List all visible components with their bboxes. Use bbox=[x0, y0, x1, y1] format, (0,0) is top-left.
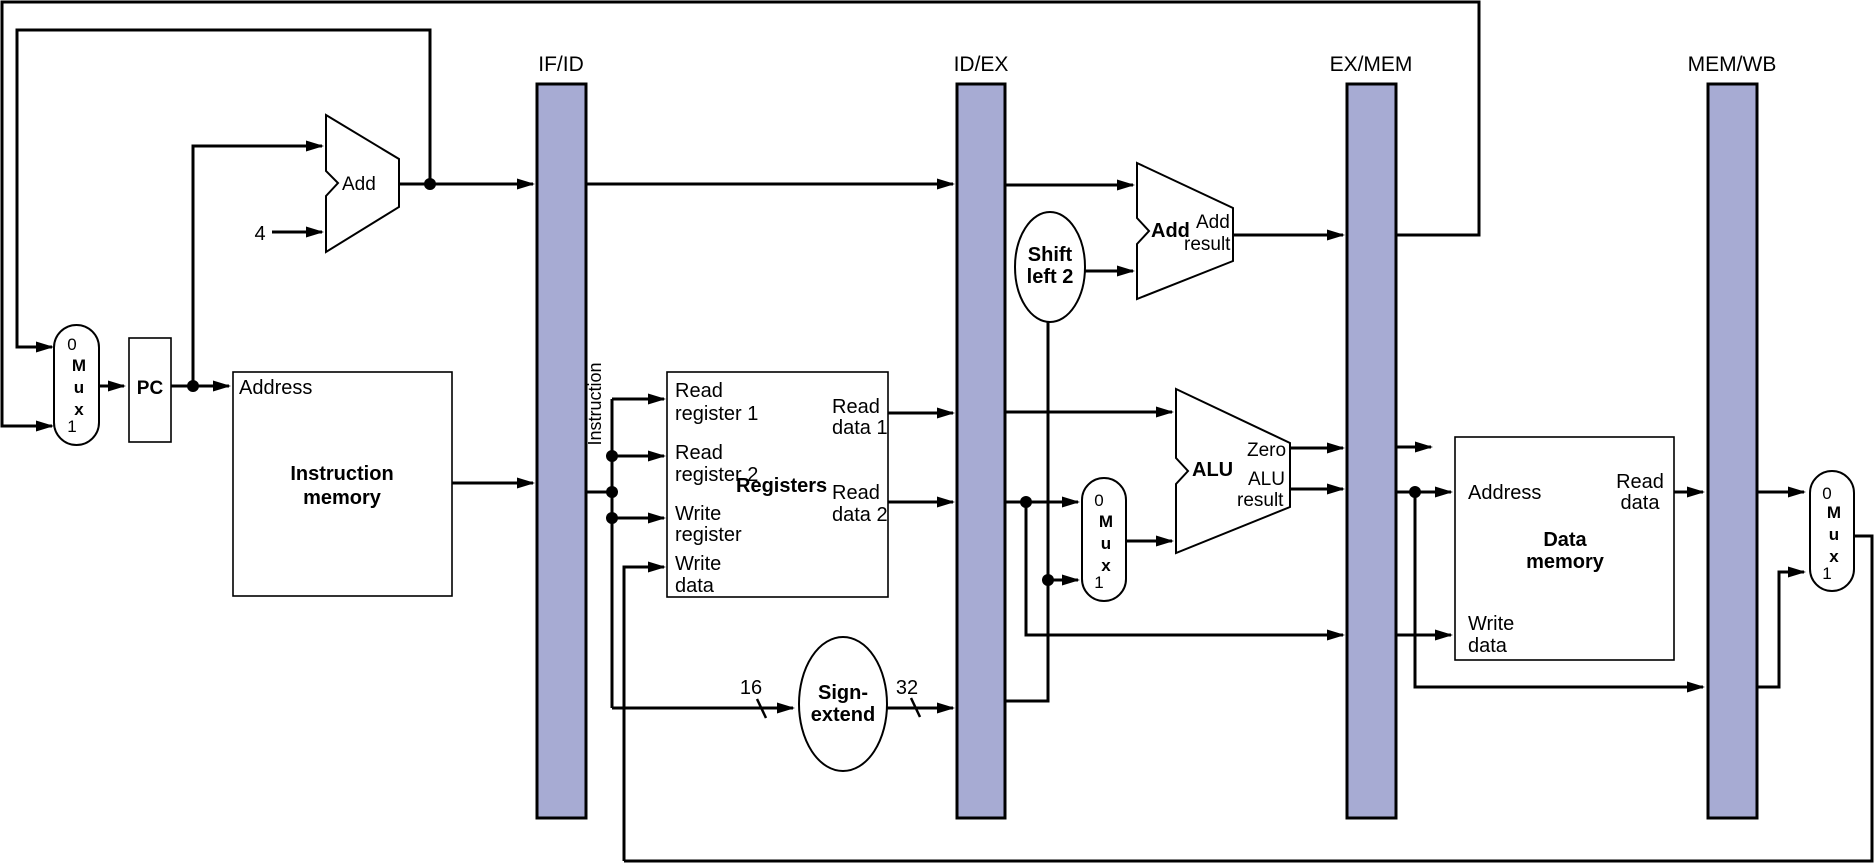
wire Read data 1 to ID/EX bbox=[888, 408, 955, 419]
constant 4 input to Add bbox=[254, 223, 324, 245]
wire Read data to MEM/WB bbox=[1674, 487, 1705, 498]
wire Read data from MEM/WB to write-back mux input 0 bbox=[1757, 487, 1806, 498]
svg-text:1: 1 bbox=[1822, 564, 1831, 583]
svg-text:data: data bbox=[1468, 635, 1508, 657]
wire PC+4 from Add output up and over to PC mux input 0 bbox=[17, 30, 430, 353]
svg-text:result: result bbox=[1237, 490, 1284, 511]
svg-text:Write: Write bbox=[1468, 613, 1514, 635]
wire ALU result bypass down to MEM/WB bbox=[1415, 492, 1705, 693]
pipeline register IF/ID bbox=[537, 53, 586, 818]
wire instruction vertical distribution bus bbox=[611, 399, 614, 708]
junction dot at PC output bbox=[187, 380, 199, 392]
svg-text:PC: PC bbox=[137, 378, 164, 399]
svg-text:ID/EX: ID/EX bbox=[954, 53, 1009, 76]
pipeline register MEM/WB bbox=[1688, 53, 1777, 818]
junction dot read register 2 tap bbox=[606, 450, 618, 462]
wire ALU result to EX/MEM bbox=[1290, 484, 1345, 495]
wire PC value up to Add input bbox=[193, 141, 324, 387]
svg-text:EX/MEM: EX/MEM bbox=[1330, 53, 1413, 76]
svg-text:1: 1 bbox=[67, 417, 76, 436]
svg-text:4: 4 bbox=[254, 223, 265, 245]
svg-text:u: u bbox=[74, 378, 84, 397]
wire Add output to IF/ID bbox=[399, 179, 535, 190]
svg-text:register 1: register 1 bbox=[675, 403, 758, 425]
svg-text:Zero: Zero bbox=[1247, 440, 1286, 461]
wire ALU result from MEM/WB to write-back mux input 1 bbox=[1757, 567, 1806, 688]
wire shift left 2 output to Add result adder bbox=[1085, 266, 1135, 277]
wire PC output to instruction memory Address bbox=[171, 381, 231, 392]
wire Add result output to EX/MEM bbox=[1233, 230, 1345, 241]
junction dot write register tap bbox=[606, 512, 618, 524]
sign-extend unit bbox=[799, 637, 887, 771]
data memory bbox=[1455, 437, 1674, 660]
wire PC+4 from IF/ID to ID/EX bbox=[586, 179, 955, 190]
bus width 32 label and slash bbox=[896, 677, 920, 717]
svg-text:Read: Read bbox=[675, 380, 723, 402]
wire mux M1 output to PC bbox=[99, 381, 126, 392]
svg-text:Read: Read bbox=[832, 396, 880, 418]
svg-text:M: M bbox=[1827, 503, 1841, 522]
wire PC+4 from ID/EX to Add result adder bbox=[1005, 180, 1135, 191]
wire instruction low 16 bits to sign-extend bbox=[612, 703, 795, 714]
adder Add result bbox=[1137, 163, 1233, 299]
wire write data from EX/MEM to data memory bbox=[1396, 630, 1453, 641]
wire sign-extend output to ID/EX bbox=[887, 703, 955, 714]
svg-text:data 2: data 2 bbox=[832, 504, 888, 526]
adder Add (PC+4) bbox=[326, 115, 399, 252]
svg-text:1: 1 bbox=[1094, 573, 1103, 592]
svg-text:IF/ID: IF/ID bbox=[538, 53, 584, 76]
pipeline register EX/MEM bbox=[1330, 53, 1413, 818]
registers file bbox=[667, 372, 888, 597]
svg-text:0: 0 bbox=[1094, 491, 1103, 510]
mux M3 (write-back mux) bbox=[1810, 471, 1854, 591]
svg-text:register: register bbox=[675, 524, 742, 546]
svg-text:memory: memory bbox=[1526, 551, 1605, 573]
wire to Read register 2 bbox=[612, 451, 666, 462]
svg-text:0: 0 bbox=[1822, 484, 1831, 503]
svg-text:Read: Read bbox=[1616, 471, 1664, 493]
svg-text:data: data bbox=[1621, 492, 1661, 514]
mux M2 (ALU operand B mux) bbox=[1082, 478, 1126, 601]
junction dot read data 2 tap bbox=[1020, 496, 1032, 508]
wire ALU result from EX/MEM to data memory Address bbox=[1396, 487, 1453, 498]
wire write-back mux output loop to registers write data bbox=[624, 536, 1872, 861]
wire instruction from IF/ID to distribution node bbox=[586, 491, 612, 494]
svg-text:Read: Read bbox=[675, 442, 723, 464]
wire Read data 2 to ID/EX bbox=[888, 497, 955, 508]
wire ALU Zero to EX/MEM bbox=[1290, 443, 1345, 454]
register PC bbox=[129, 338, 171, 442]
svg-text:M: M bbox=[72, 356, 86, 375]
svg-text:Registers: Registers bbox=[736, 475, 827, 497]
svg-text:extend: extend bbox=[811, 704, 875, 726]
svg-text:Address: Address bbox=[1468, 482, 1541, 504]
wire Zero out of EX/MEM (branch condition) bbox=[1396, 442, 1433, 453]
svg-text:M: M bbox=[1099, 512, 1113, 531]
svg-text:data 1: data 1 bbox=[832, 417, 888, 439]
junction dot at Add output bbox=[424, 178, 436, 190]
svg-text:MEM/WB: MEM/WB bbox=[1688, 53, 1777, 76]
junction dot immediate tap to ALU mux bbox=[1042, 574, 1054, 586]
wire branch-target loop from EX/MEM to PC mux input 1 bbox=[2, 2, 1479, 432]
junction dot instruction tee bbox=[606, 486, 618, 498]
svg-text:left 2: left 2 bbox=[1027, 266, 1074, 288]
svg-text:Add: Add bbox=[1196, 212, 1230, 233]
bus width 16 label and slash bbox=[740, 677, 766, 718]
svg-text:Sign-: Sign- bbox=[818, 682, 868, 704]
pipeline register ID/EX bbox=[954, 53, 1009, 818]
svg-text:32: 32 bbox=[896, 677, 918, 699]
shift left 2 unit bbox=[1015, 212, 1085, 322]
wire Read data 2 from ID/EX to ALU mux input 0 bbox=[1005, 497, 1080, 508]
instruction memory bbox=[233, 372, 452, 596]
svg-text:Read: Read bbox=[832, 482, 880, 504]
svg-text:Shift: Shift bbox=[1028, 244, 1073, 266]
svg-text:result: result bbox=[1184, 234, 1231, 255]
svg-text:0: 0 bbox=[67, 335, 76, 354]
svg-text:Write: Write bbox=[675, 553, 721, 575]
svg-text:Address: Address bbox=[239, 377, 312, 399]
wire write-back data vertical riser to Write data bbox=[624, 562, 666, 862]
svg-text:memory: memory bbox=[303, 487, 382, 509]
svg-text:data: data bbox=[675, 575, 715, 597]
wire read data 2 down to EX/MEM write data bbox=[1026, 502, 1345, 641]
svg-text:Instruction: Instruction bbox=[290, 463, 393, 485]
svg-text:u: u bbox=[1101, 534, 1111, 553]
wire immediate to ALU mux input 1 bbox=[1048, 575, 1080, 586]
wire mux M2 output to ALU bbox=[1126, 536, 1174, 547]
svg-text:Write: Write bbox=[675, 503, 721, 525]
wire Read data 1 from ID/EX to ALU bbox=[1005, 407, 1174, 418]
wire to Write register bbox=[612, 513, 666, 524]
svg-text:16: 16 bbox=[740, 677, 762, 699]
junction dot ALU result tap bbox=[1409, 486, 1421, 498]
svg-text:ALU: ALU bbox=[1192, 459, 1233, 481]
mux M1 (PC source mux) bbox=[54, 325, 99, 445]
ALU bbox=[1176, 389, 1290, 553]
svg-text:Instruction: Instruction bbox=[585, 362, 605, 445]
wire instruction memory output to IF/ID bbox=[452, 478, 535, 489]
svg-text:Data: Data bbox=[1543, 529, 1587, 551]
wire sign-extended immediate from ID/EX up to shift left 2 bbox=[1005, 322, 1048, 701]
svg-text:ALU: ALU bbox=[1248, 469, 1285, 490]
wire to Read register 1 bbox=[612, 394, 666, 405]
svg-text:u: u bbox=[1829, 525, 1839, 544]
svg-text:Add: Add bbox=[342, 174, 376, 195]
